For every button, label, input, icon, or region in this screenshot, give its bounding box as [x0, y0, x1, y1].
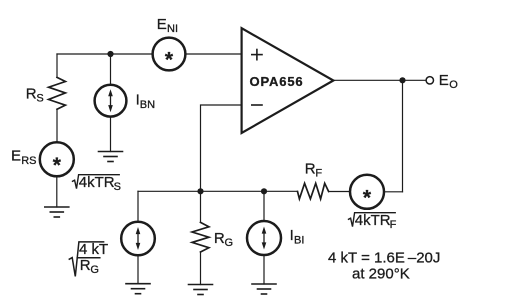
label E_RS	[11, 148, 36, 167]
svg-text:R: R	[80, 257, 91, 274]
op-amp U1 OPA656	[242, 28, 334, 133]
voltage source E_RS	[40, 142, 74, 177]
svg-text:R: R	[214, 230, 225, 247]
wire to I_BI	[263, 191, 265, 221]
resistor R_G	[192, 222, 209, 252]
label I_BI	[290, 227, 305, 247]
wire output	[333, 79, 425, 81]
terminal E_O	[426, 77, 433, 84]
svg-text:4 kT = 1.6E –20J: 4 kT = 1.6E –20J	[328, 250, 440, 267]
label R_G	[214, 230, 233, 249]
label I_BN	[136, 92, 156, 112]
wire top-left vertical	[56, 54, 58, 77]
current source I_BI	[247, 221, 281, 255]
wire source to ground	[137, 255, 139, 283]
label E_O	[439, 72, 458, 91]
note 4kT value	[328, 250, 440, 283]
label R_F	[305, 161, 323, 180]
ground R_G	[189, 285, 213, 295]
node I_BI junction	[261, 188, 267, 194]
node inverting junction	[197, 188, 203, 194]
current source sqrt4kT/RG	[121, 222, 155, 256]
svg-text:4kTR: 4kTR	[79, 174, 115, 191]
svg-text:R: R	[26, 86, 37, 103]
svg-text:E: E	[439, 72, 449, 89]
svg-text:at 290°K: at 290°K	[352, 266, 410, 283]
label sqrt4kTR_S	[73, 174, 121, 193]
wire noise source to feedback	[384, 191, 403, 193]
wire to 4kT/RG source	[137, 191, 139, 221]
wire feedback vertical	[402, 80, 404, 192]
label sqrt 4kT over R_G	[69, 241, 108, 277]
svg-text:*: *	[363, 186, 372, 209]
svg-text:F: F	[315, 168, 322, 180]
wire E_NI to op-amp	[186, 53, 242, 55]
svg-text:F: F	[390, 219, 397, 231]
ground I_BN	[99, 152, 123, 162]
svg-text:G: G	[90, 264, 99, 276]
svg-text:4kTR: 4kTR	[355, 212, 391, 229]
wire R_F to noise source	[329, 191, 350, 193]
wire to R_G	[200, 191, 202, 222]
wire bottom rail	[138, 190, 298, 192]
svg-text:4 kT: 4 kT	[79, 241, 108, 258]
node output junction	[399, 77, 405, 83]
wire R_S to E_RS	[56, 109, 58, 142]
svg-text:R: R	[305, 161, 316, 178]
svg-text:E: E	[157, 16, 167, 33]
wire to I_BN	[110, 54, 112, 85]
svg-text:G: G	[225, 237, 234, 249]
svg-text:O: O	[449, 79, 458, 91]
svg-text:*: *	[53, 154, 62, 177]
node junction top	[107, 51, 113, 57]
label R_S	[26, 86, 44, 105]
wire I_BI to ground	[263, 255, 265, 284]
ground 4kT/RG	[126, 284, 150, 294]
svg-text:*: *	[165, 49, 174, 72]
current source I_BN	[95, 85, 127, 117]
noise source E_NI	[153, 38, 186, 72]
svg-text:S: S	[36, 93, 43, 105]
svg-text:NI: NI	[167, 23, 178, 35]
svg-text:OPA656: OPA656	[250, 74, 304, 89]
op-amp minus input	[252, 104, 262, 106]
wire I_BN to ground	[110, 117, 112, 152]
ground E_RS	[45, 207, 69, 217]
resistor R_S	[49, 77, 66, 109]
wire inverting input	[201, 105, 242, 191]
resistor R_F	[298, 183, 329, 199]
noise source sqrt4kTR_F	[350, 175, 384, 210]
wire R_G to ground	[200, 252, 202, 285]
ground I_BI	[252, 284, 276, 294]
wire E_RS to ground	[56, 176, 58, 207]
op-amp plus input	[252, 50, 262, 60]
svg-text:BI: BI	[294, 235, 304, 247]
svg-text:E: E	[11, 148, 21, 165]
label E_NI	[157, 16, 178, 35]
svg-text:BN: BN	[140, 99, 155, 111]
svg-text:RS: RS	[21, 155, 36, 167]
wire top horizontal to E_NI	[57, 53, 152, 55]
label sqrt4kTR_F	[349, 212, 397, 231]
svg-text:S: S	[114, 181, 121, 193]
